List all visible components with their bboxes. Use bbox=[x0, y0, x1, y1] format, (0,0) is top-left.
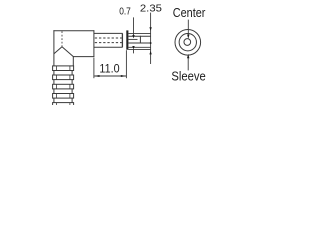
strain relief rib band 1 bbox=[53, 66, 74, 71]
washer bottom extension line past washer bbox=[128, 48, 151, 50]
barrel hidden bore dashed line upper bbox=[95, 37, 122, 39]
barrel top edge bbox=[94, 32, 123, 34]
front view outer circle (housing) bbox=[175, 30, 201, 56]
barrel hidden bore dashed line lower bbox=[95, 42, 122, 44]
svg-text:2.35: 2.35 bbox=[140, 2, 162, 14]
strain relief rib band 5 (clipped at image bottom) bbox=[53, 103, 74, 108]
tip pin end cap bbox=[139, 36, 141, 44]
boot tube right verticals between ribs bbox=[71, 71, 73, 76]
barrel end cap bbox=[121, 33, 123, 47]
dimension 0.7 leader lower segment with down arrow at washer-bottom line bbox=[132, 46, 134, 53]
svg-text:Center: Center bbox=[173, 5, 206, 20]
Sleeve label leader with up arrow bbox=[187, 54, 189, 71]
tip pin top edge + extension line to 2.35 dimension bbox=[128, 35, 151, 37]
dimension 11.0 extension line right bbox=[125, 50, 127, 78]
dimension 2.35 down arrow at washer top bbox=[149, 27, 151, 31]
body right edge bbox=[93, 30, 95, 57]
front view middle circle (sleeve) bbox=[179, 34, 196, 51]
hidden centerline (dashed) in body bbox=[61, 31, 63, 46]
dimension 11.0 line with outward arrows bbox=[94, 75, 127, 77]
dimension 2.35 up arrow at washer bottom bbox=[149, 51, 151, 55]
Center label leader with down arrow bbox=[187, 20, 189, 39]
svg-text:Sleeve: Sleeve bbox=[171, 69, 205, 84]
barrel bottom outline extension line past washer bbox=[128, 46, 151, 48]
chamfer left diagonal bbox=[54, 47, 62, 54]
tip pin axis line bbox=[128, 38, 137, 40]
barrel top outline extension line past washer bbox=[128, 33, 151, 35]
dimension 2.35 leader knot at pin-bottom crossing bbox=[150, 42, 152, 44]
dimension 0.7 leader upper segment with down arrow bbox=[132, 17, 134, 38]
dimension 2.35 leader line (continuous) bbox=[150, 13, 152, 64]
front view inner circle (center tip) bbox=[184, 39, 191, 46]
strain relief rib band 4 bbox=[53, 94, 74, 99]
svg-text:11.0: 11.0 bbox=[99, 62, 119, 76]
svg-text:0.7: 0.7 bbox=[119, 7, 131, 18]
barrel bottom edge bbox=[94, 46, 123, 48]
plug body left edge and cable boot left edge bbox=[53, 30, 55, 105]
body top edge bbox=[53, 30, 94, 32]
strain relief rib band 3 bbox=[53, 84, 74, 89]
strain relief rib band 2 bbox=[53, 75, 74, 80]
chamfer right diagonal bbox=[62, 47, 74, 57]
tip washer flange (solid dark) bbox=[126, 30, 128, 49]
boot right edge upper section bbox=[72, 56, 74, 66]
dimension 11.0 extension line left bbox=[93, 58, 95, 79]
body bottom edge bbox=[73, 56, 94, 58]
tip pin bottom edge + extension line to 2.35 dimension bbox=[128, 42, 151, 44]
